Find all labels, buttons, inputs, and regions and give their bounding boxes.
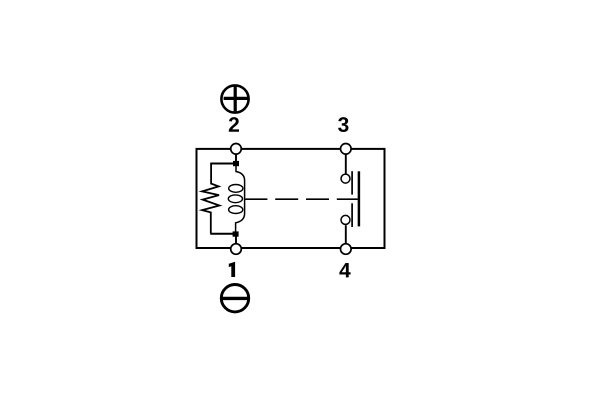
movable contact bar (armature)	[358, 171, 361, 226]
pin 1 terminal	[231, 244, 242, 255]
lower contact point	[341, 215, 350, 224]
pin 3 terminal	[341, 144, 352, 155]
junction dot (top, coil/resistor)	[233, 161, 239, 166]
relay coil (solenoid)	[228, 165, 244, 233]
wire: pin 2 to coil junction	[235, 155, 237, 163]
battery negative terminal symbol (-)	[221, 285, 248, 312]
terminal label 3	[338, 117, 348, 132]
fixed contact rail (lower segment)	[351, 203, 353, 227]
terminal label 2	[229, 117, 239, 132]
wire: top junction to resistor branch	[210, 163, 233, 165]
pin 4 terminal	[341, 244, 352, 255]
fixed contact rail (upper segment)	[351, 171, 353, 194]
terminal label 1	[229, 262, 235, 277]
wire: resistor bottom to lower junction	[210, 233, 233, 235]
wire: lower contact to pin 4	[345, 225, 347, 243]
battery positive terminal symbol (+)	[221, 85, 248, 112]
wire: bottom junction to pin 1	[235, 237, 237, 244]
mechanical linkage (dashed) coil to armature	[244, 198, 357, 200]
relay body outline	[197, 149, 385, 248]
wire: pin 3 to upper contact	[345, 155, 347, 174]
resistor (coil suppression, zigzag)	[202, 164, 219, 233]
terminal label 4	[339, 263, 350, 277]
upper contact point	[341, 174, 350, 183]
pin 2 terminal	[231, 144, 242, 155]
junction dot (bottom, coil/resistor)	[233, 231, 239, 236]
